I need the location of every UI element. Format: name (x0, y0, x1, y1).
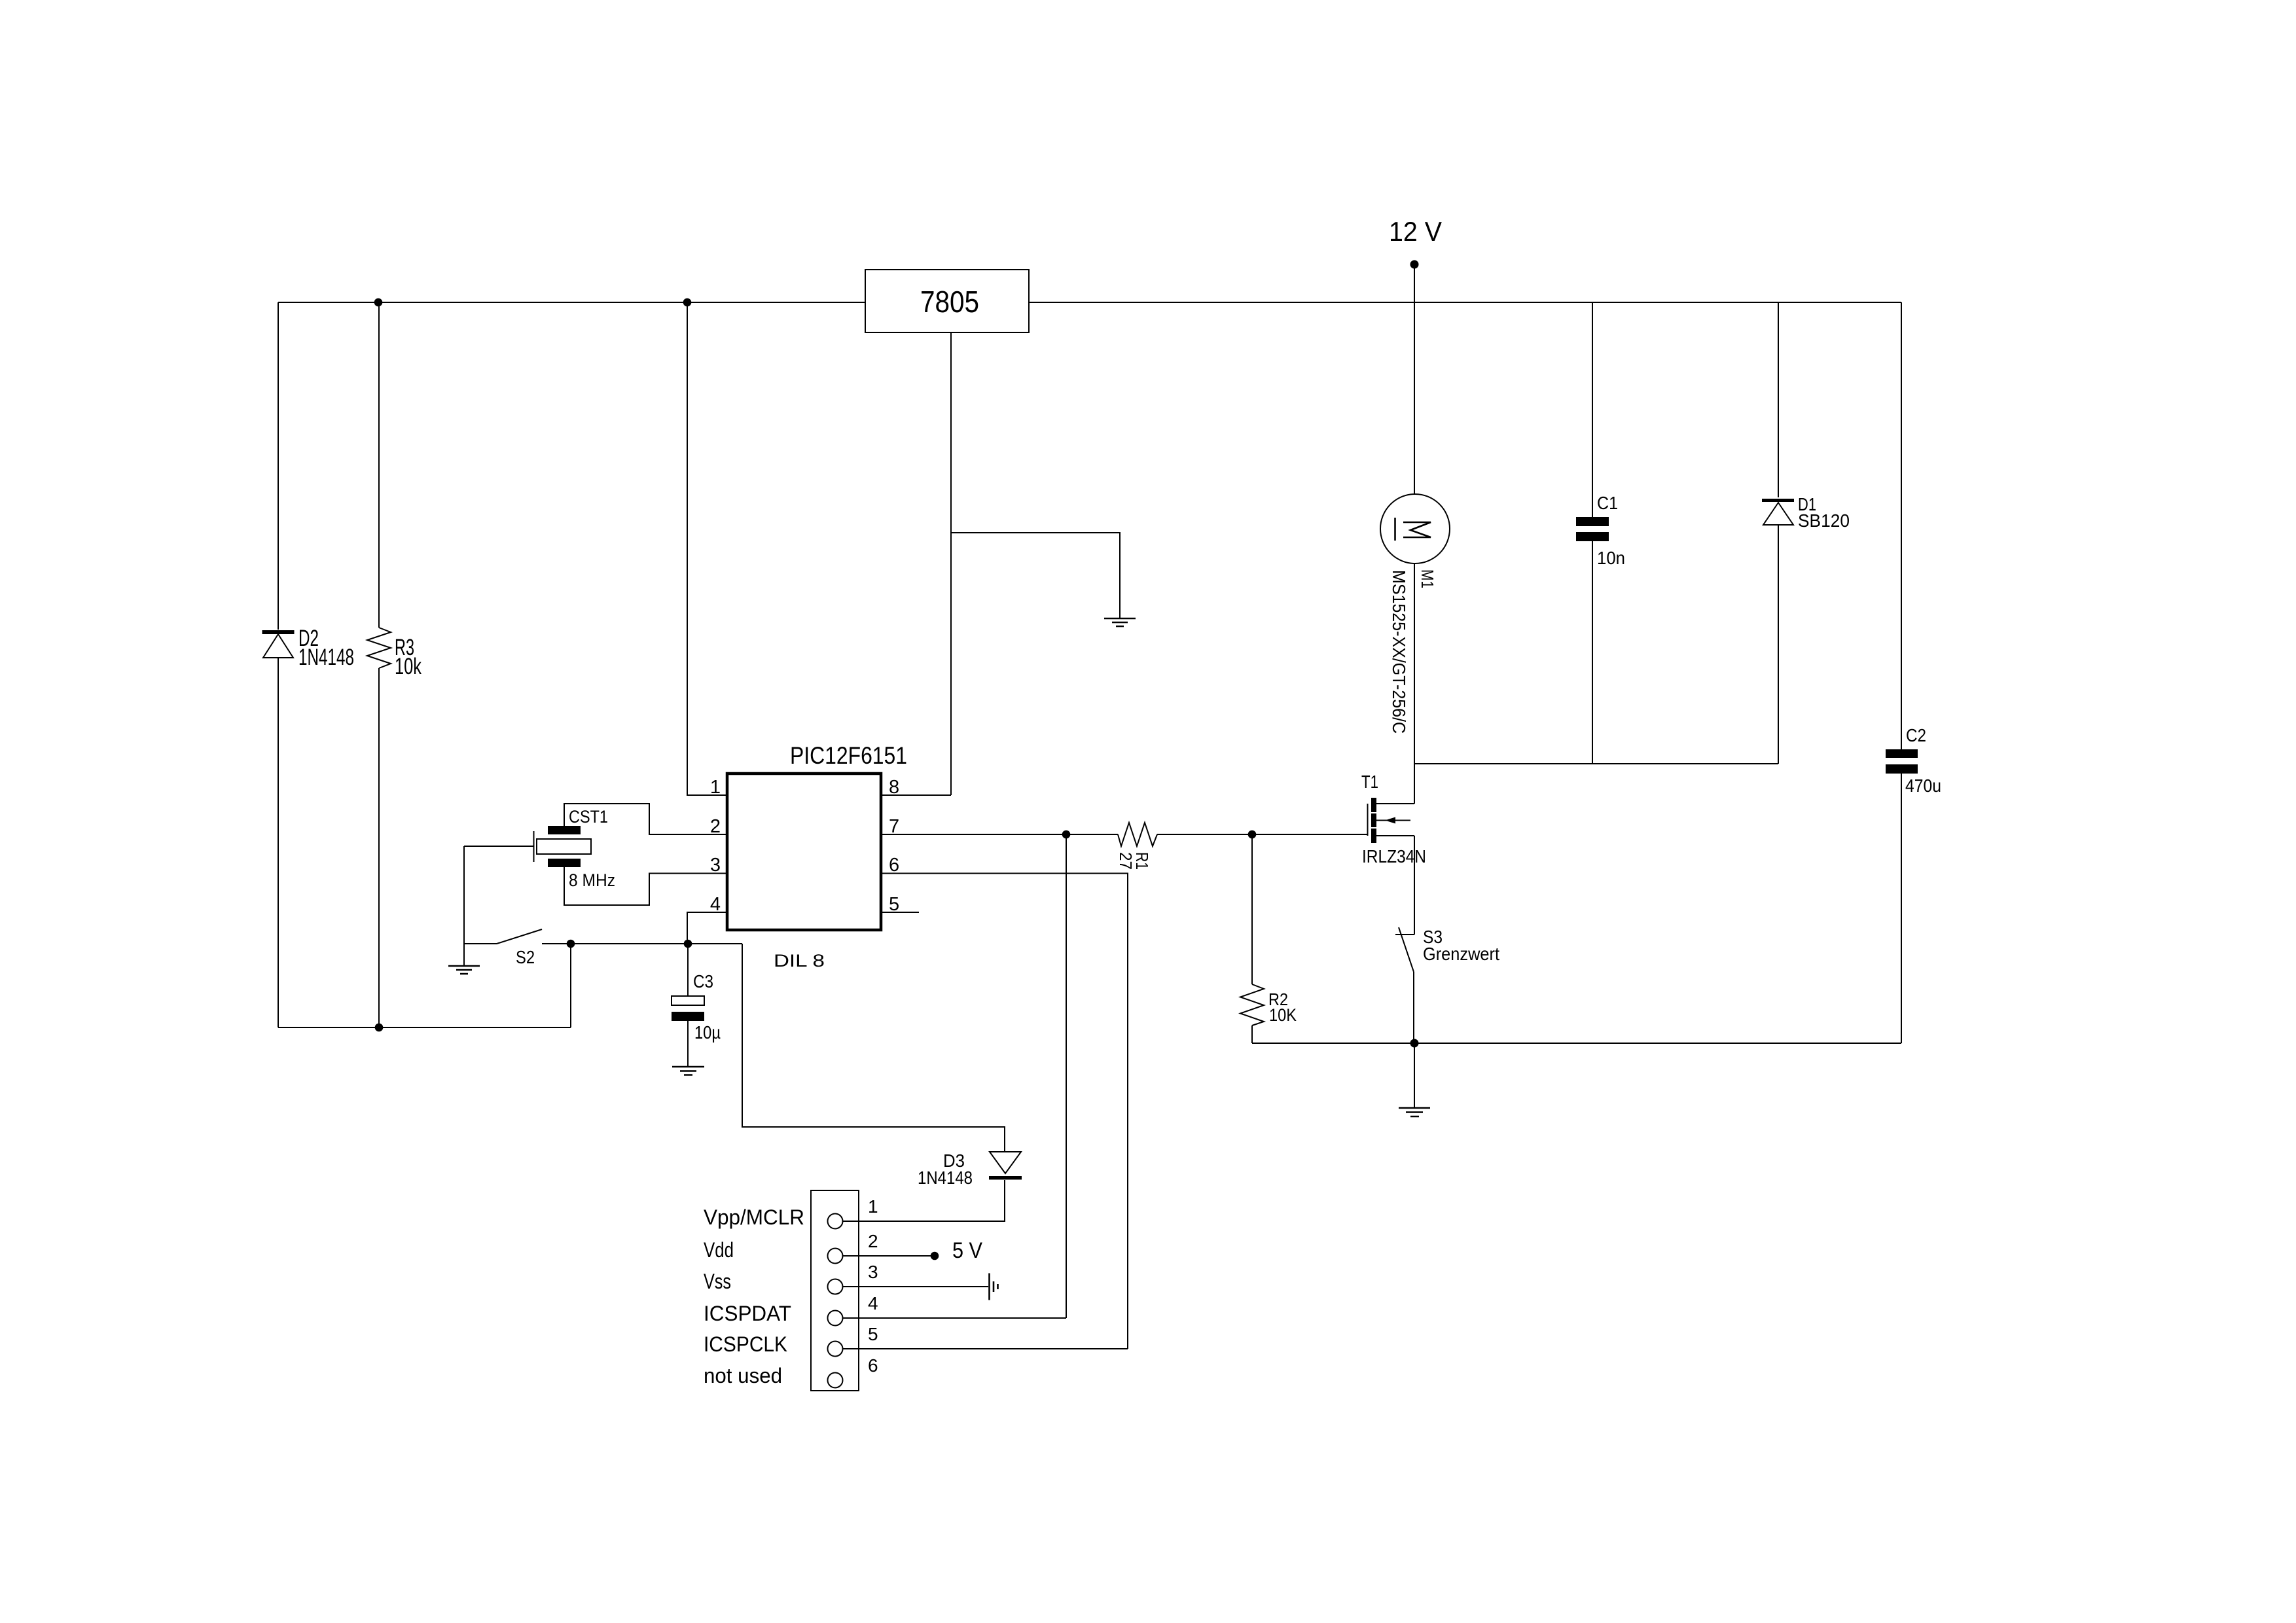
wire 12V supply to motor (1414, 264, 1415, 495)
svg-text:SB120: SB120 (1798, 510, 1850, 531)
wire 5V top rail left of 7805 (278, 302, 865, 303)
wire snubber rail motor to C1 D1 (1414, 763, 1778, 764)
wire 7805 ground pin riser (950, 332, 952, 795)
ceramic resonator CST1 bottom plate (548, 859, 581, 867)
voltage regulator U1 7805 box (865, 270, 1029, 332)
wire riser from bottom rail up to S2 row (570, 944, 571, 1027)
wire rail down to R3 (378, 302, 380, 628)
resistor R3 zigzag (367, 628, 391, 668)
junction dot S2 riser (567, 940, 575, 948)
ceramic resonator CST1 body (537, 839, 591, 854)
wire IC pin5 stub (881, 912, 919, 913)
junction dot pin7 ICSPDAT tap (1062, 830, 1071, 839)
IC U1 PIC12F6151 DIL8 box (727, 774, 881, 930)
wire bottom left rail (278, 1027, 571, 1028)
wire IC pin7 to R1 (881, 834, 1118, 835)
svg-text:3: 3 (710, 855, 721, 876)
motor M glyph rotated (1403, 522, 1431, 537)
wire D1 anode to snubber rail (1778, 525, 1779, 764)
wire R2 to bottom rail (1251, 1026, 1253, 1043)
junction dot S3 ground (1410, 1039, 1419, 1048)
motor M1 circle (1380, 494, 1450, 563)
ground symbol below C3 (672, 1067, 704, 1075)
wire connector pin3 to ground (843, 1286, 989, 1287)
capacitor C2 top plate (1886, 749, 1918, 758)
transistor T1 channel bar bottom (1371, 829, 1376, 843)
wire C1 to snubber rail (1592, 541, 1593, 764)
connector pin 1 circle (828, 1214, 843, 1229)
connector pin 4 circle (828, 1311, 843, 1326)
svg-text:2: 2 (868, 1231, 878, 1251)
connector pin 6 circle (828, 1373, 843, 1388)
wire S3 to ground junction (1413, 972, 1414, 1043)
switch S3 contact bar (1395, 934, 1414, 935)
wire IC pin1 to 5V rail riser (687, 302, 727, 795)
svg-text:1: 1 (710, 777, 721, 798)
svg-text:10µ: 10µ (694, 1022, 721, 1043)
svg-text:ICSPDAT: ICSPDAT (704, 1302, 791, 1325)
svg-text:27: 27 (1116, 852, 1136, 870)
wire IC pin3 loop to resonator bottom (564, 867, 727, 905)
junction dot on rail at R3 (374, 298, 383, 307)
capacitor C3 positive plate (672, 996, 704, 1005)
resistor R2 zigzag (1240, 984, 1264, 1026)
capacitor C3 negative plate (672, 1012, 704, 1021)
transistor T1 source wire (1376, 835, 1414, 836)
switch S3 blade (1399, 927, 1414, 972)
svg-text:CST1: CST1 (569, 807, 608, 827)
transistor T1 drain wire (1376, 803, 1414, 804)
svg-text:T1: T1 (1361, 772, 1378, 792)
capacitor C2 bottom plate (1886, 764, 1918, 774)
svg-text:10k: 10k (395, 654, 422, 679)
svg-text:10n: 10n (1597, 548, 1625, 568)
svg-text:1N4148: 1N4148 (298, 645, 354, 670)
svg-text:4: 4 (710, 894, 721, 915)
transistor T1 channel bar middle (1371, 813, 1376, 827)
svg-text:7805: 7805 (920, 285, 979, 319)
wire rail down to D2 cathode (278, 302, 279, 630)
wire motor to T1 drain (1414, 563, 1415, 804)
transistor T1 channel bar top (1371, 798, 1376, 812)
diode D3 cathode bar (989, 1176, 1022, 1180)
diode D3 triangle (990, 1152, 1021, 1173)
wire 12V top rail right of 7805 (1029, 302, 1901, 303)
wire bottom right ground rail (1252, 1043, 1901, 1044)
wire ground link to resonator (464, 846, 533, 847)
ground symbol at S2 (448, 966, 480, 974)
wire D3 cathode to connector pin1 (843, 1180, 1005, 1221)
diode D2 cathode bar (262, 630, 295, 634)
svg-text:PIC12F6151: PIC12F6151 (790, 742, 907, 769)
wire ground branch from 7805 riser (951, 533, 1120, 618)
svg-text:6: 6 (868, 1355, 878, 1376)
wire T1 source down to S3 (1414, 836, 1415, 935)
svg-text:6: 6 (889, 855, 899, 876)
svg-text:C1: C1 (1597, 493, 1618, 513)
svg-text:4: 4 (868, 1293, 878, 1313)
svg-text:DIL 8: DIL 8 (774, 951, 825, 971)
svg-text:2: 2 (710, 816, 721, 837)
transistor T1 substrate arrow line (1376, 820, 1410, 821)
motor M underline (1394, 518, 1396, 541)
svg-text:ICSPCLK: ICSPCLK (704, 1332, 787, 1356)
diode D1 triangle (1763, 503, 1793, 525)
wire IC pin2 loop to resonator top (564, 804, 727, 834)
svg-text:M1: M1 (1418, 569, 1437, 588)
svg-text:Vpp/MCLR: Vpp/MCLR (704, 1205, 804, 1229)
wire C2 down to ground rail (1901, 774, 1902, 1043)
ground symbol below S3 (1399, 1108, 1430, 1116)
wire D2 anode down to bottom rail (278, 658, 279, 1027)
wire connector pin2 to 5V (843, 1255, 935, 1257)
connector SV1 box (811, 1190, 859, 1391)
junction dot R3 bottom (375, 1024, 384, 1032)
wire ICSPDAT riser (1066, 834, 1067, 1318)
svg-text:8 MHz: 8 MHz (569, 870, 615, 890)
wire connector pin4 ICSPDAT (843, 1317, 1067, 1319)
ceramic resonator CST1 top plate (548, 826, 581, 834)
connector pin 5 circle (828, 1342, 843, 1357)
svg-text:1: 1 (868, 1196, 878, 1217)
wire rail down to D1 (1778, 302, 1779, 497)
svg-text:5: 5 (868, 1324, 878, 1344)
wire IC pin6 to ICSPCLK riser (881, 874, 1128, 1349)
wire connector pin5 ICSPCLK (843, 1348, 1128, 1349)
junction dot R2 tap (1248, 830, 1257, 839)
wire R3 down to bottom rail (378, 668, 380, 1027)
wire IC pin4 to MCLR row (687, 912, 727, 944)
junction dot C3 tap (684, 940, 692, 948)
transistor T1 gate line (1367, 804, 1369, 836)
wire MCLR down and across to D3 (742, 944, 1005, 1151)
resistor R2 riser from gate net (1251, 834, 1253, 984)
svg-text:C2: C2 (1906, 725, 1926, 745)
svg-text:470u: 470u (1905, 776, 1941, 796)
ceramic resonator CST1 electrode line (533, 831, 535, 862)
wire S2 to MCLR junctions (542, 943, 742, 944)
svg-text:S2: S2 (516, 947, 535, 967)
svg-text:5 V: 5 V (952, 1238, 982, 1263)
svg-text:not used: not used (704, 1364, 782, 1387)
capacitor C1 bottom plate (1576, 532, 1609, 541)
svg-text:IRLZ34N: IRLZ34N (1362, 846, 1426, 866)
svg-text:Vss: Vss (704, 1270, 731, 1293)
wire R1 to T1 gate (1157, 834, 1367, 835)
diode D2 triangle (263, 634, 293, 658)
svg-text:Vdd: Vdd (704, 1238, 734, 1262)
svg-text:3: 3 (868, 1262, 878, 1282)
svg-text:1N4148: 1N4148 (918, 1168, 973, 1188)
wire S2 ground stem (463, 846, 465, 966)
node 5V dot (931, 1252, 939, 1260)
wire rail down to C2 (1901, 302, 1902, 749)
connector pin 3 circle (828, 1279, 843, 1294)
wire S2 left stub (464, 943, 497, 944)
connector pin 2 circle (828, 1249, 843, 1264)
svg-text:Grenzwert: Grenzwert (1423, 944, 1499, 964)
junction dot on rail at IC pin1 riser (683, 298, 692, 307)
switch S2 blade (497, 929, 542, 944)
svg-text:12 V: 12 V (1389, 216, 1442, 247)
ground symbol below 7805 (1104, 618, 1136, 626)
small ground symbol at Vss (990, 1274, 998, 1300)
wire rail down to C1 (1592, 302, 1593, 517)
wire IC pin8 to 7805 ground riser (881, 794, 951, 796)
svg-text:MS1525-XX/GT-256/C: MS1525-XX/GT-256/C (1389, 570, 1409, 734)
capacitor C1 top plate (1576, 517, 1609, 526)
transistor T1 arrowhead (1385, 817, 1395, 824)
wire ground stem below S3 (1414, 1043, 1415, 1108)
capacitor C3 stem top (687, 944, 689, 996)
capacitor C3 stem bottom (687, 1021, 689, 1067)
diode D1 cathode bar (1762, 499, 1794, 502)
svg-text:10K: 10K (1269, 1005, 1297, 1025)
node 12V supply dot (1410, 260, 1419, 269)
resistor R1 zigzag (1118, 823, 1157, 846)
svg-text:C3: C3 (693, 971, 713, 991)
